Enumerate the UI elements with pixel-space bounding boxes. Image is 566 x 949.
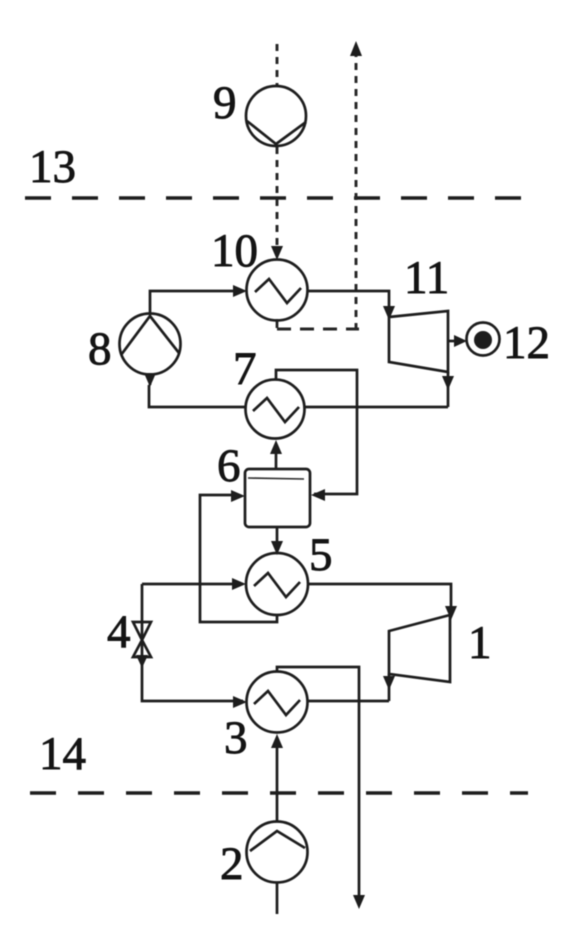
arrow into heat exchanger 10 left <box>233 285 247 297</box>
pump 8 <box>120 314 181 375</box>
wire pump 8 top to heat exchanger 10 <box>150 291 243 313</box>
wire heat exchanger 5 bottom loop to separator 6 left <box>200 495 277 622</box>
pump 9 <box>246 86 306 146</box>
arrow into generator 12 <box>454 335 467 347</box>
boundary line 14 (dashed horizontal) <box>30 791 528 795</box>
generator 12 <box>467 323 500 356</box>
wire turbine 11 exhaust to heat exchanger 7 <box>305 406 448 409</box>
arrow up at top of dashed stream <box>350 41 362 56</box>
wire pump 2 to heat exchanger 3 <box>276 746 279 822</box>
svg-text:6: 6 <box>217 440 241 492</box>
dashed stream through pump 9 <box>276 44 279 250</box>
svg-text:7: 7 <box>233 343 257 395</box>
svg-text:3: 3 <box>224 712 248 764</box>
liquid level in separator 6 <box>248 478 304 479</box>
arrow into heat exchanger 5 top <box>271 541 283 555</box>
boundary line 13 (dashed horizontal) <box>25 196 525 200</box>
svg-text:1: 1 <box>468 617 492 669</box>
arrow into separator 6 right side <box>311 489 325 501</box>
wire below pump 8 <box>149 374 152 385</box>
wire heat exchanger 7 to pump 8 <box>149 385 246 407</box>
wire turbine 11 exhaust down <box>447 372 450 407</box>
heat exchanger 7 <box>246 380 305 439</box>
heat exchanger 10 <box>247 260 308 321</box>
wire below pump 2 <box>276 882 279 914</box>
svg-text:14: 14 <box>39 728 86 780</box>
arrow on turbine 1 exhaust <box>383 676 395 690</box>
arrow below pump 8 <box>144 373 156 387</box>
arrow into heat exchanger 3 left <box>233 696 247 708</box>
svg-text:4: 4 <box>107 606 131 658</box>
svg-text:11: 11 <box>404 252 449 304</box>
wire separator 6 bottom to heat exchanger 5 <box>276 527 279 547</box>
dashed stream line (right, with up arrow) <box>355 50 358 331</box>
wire heat exchanger 5 to turbine 1 <box>308 584 451 611</box>
wire valve 4 to heat exchanger 5 <box>142 583 242 586</box>
turbine 11 <box>389 311 448 372</box>
arrow into separator 6 left side <box>231 490 245 502</box>
turbine 1 <box>389 615 450 682</box>
wire turbine 1 exhaust to heat exchanger 3 <box>308 700 389 703</box>
separator 6 <box>245 469 310 527</box>
wire separator 6 top to heat exchanger 7 <box>275 452 278 469</box>
arrow into turbine 11 inlet <box>383 306 395 320</box>
wire heat exchanger 7 top to separator 6 right <box>276 370 357 494</box>
arrow below valve 4 <box>136 655 148 668</box>
svg-text:10: 10 <box>211 225 258 277</box>
dashed link heat exchanger 10 to stream (horizontal) <box>277 328 359 331</box>
wire heat exchanger 10 to turbine 11 <box>308 291 389 313</box>
svg-text:5: 5 <box>309 529 333 581</box>
svg-text:2: 2 <box>220 838 244 890</box>
wire heat exchanger 3 top to outfall stream <box>277 667 359 897</box>
svg-text:8: 8 <box>88 323 112 375</box>
arrow into heat exchanger 10 top <box>271 246 283 260</box>
svg-text:9: 9 <box>213 77 237 129</box>
arrow into turbine 1 inlet <box>445 606 457 620</box>
heat exchanger 5 <box>246 553 308 615</box>
arrow into heat exchanger 5 left <box>232 578 246 590</box>
svg-text:13: 13 <box>29 141 76 193</box>
wire heat exchanger 3 to valve 4 <box>142 622 243 701</box>
wire turbine 11 to generator 12 <box>448 340 462 343</box>
wire turbine 1 exhaust down <box>388 674 391 701</box>
arrow into heat exchanger 3 bottom <box>271 734 283 748</box>
arrow into heat exchanger 7 bottom <box>270 440 282 454</box>
pump 2 <box>247 822 308 883</box>
heat exchanger 3 <box>247 672 308 733</box>
valve 4 <box>133 622 151 657</box>
wire valve 4 top to loop corner <box>141 584 144 622</box>
stub below heat exchanger 10 <box>276 319 279 328</box>
arrow on turbine 11 exhaust <box>442 376 454 390</box>
svg-text:12: 12 <box>503 317 550 369</box>
arrow at outfall stream end <box>353 895 365 909</box>
